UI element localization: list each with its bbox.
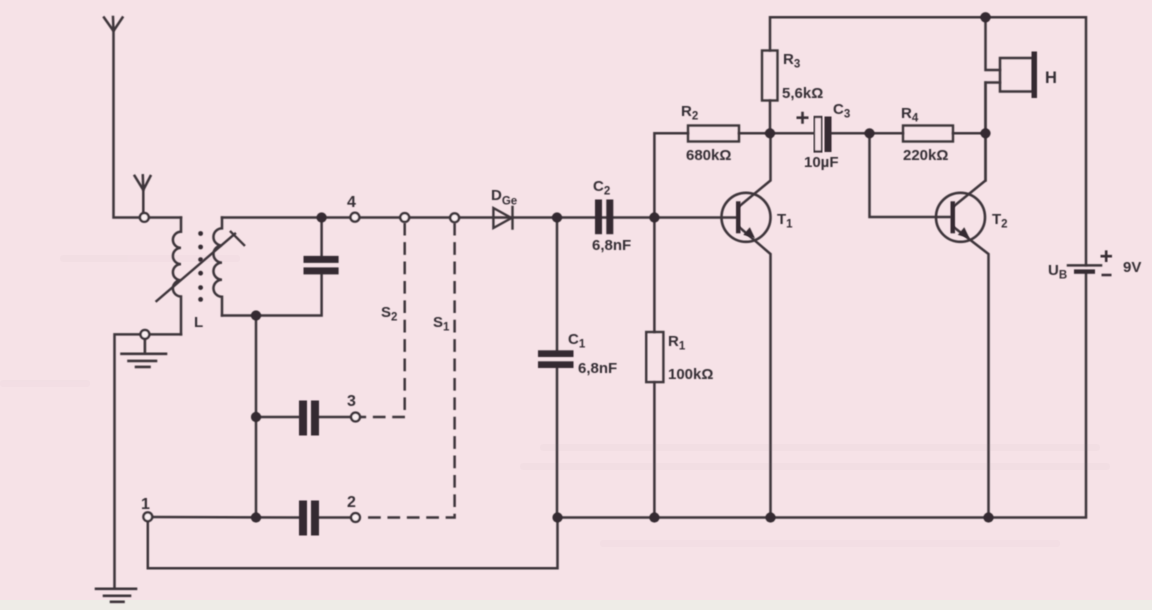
svg-text:6,8nF: 6,8nF (592, 237, 631, 254)
svg-text:100kΩ: 100kΩ (668, 366, 713, 383)
svg-text:220kΩ: 220kΩ (903, 147, 948, 164)
svg-text:9V: 9V (1123, 259, 1141, 276)
svg-text:10µF: 10µF (804, 154, 839, 171)
svg-text:1: 1 (141, 496, 150, 513)
svg-text:L: L (194, 314, 203, 331)
svg-text:4: 4 (347, 194, 356, 211)
svg-text:6,8nF: 6,8nF (578, 360, 617, 377)
svg-text:680kΩ: 680kΩ (686, 147, 731, 164)
svg-text:3: 3 (347, 393, 356, 410)
svg-text:H: H (1045, 69, 1057, 87)
svg-text:5,6kΩ: 5,6kΩ (782, 85, 823, 102)
svg-text:2: 2 (347, 494, 356, 511)
